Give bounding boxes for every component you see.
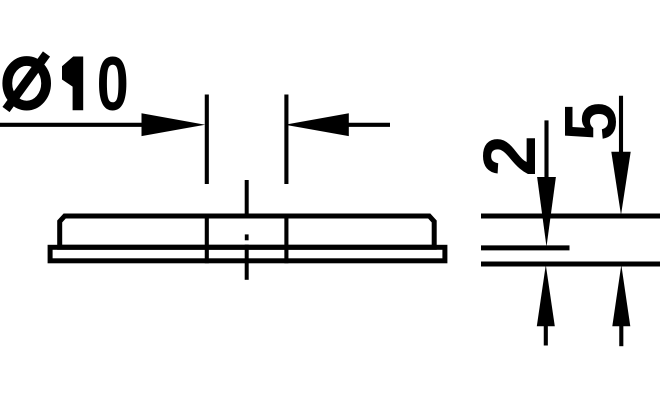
arrowhead left-pointing (Ø10 right) bbox=[285, 113, 349, 136]
pad body (disc side view) bbox=[60, 216, 435, 247]
svg-text:0: 0 bbox=[97, 42, 129, 126]
arrowhead down-pointing (dim 5) bbox=[611, 152, 630, 215]
svg-text:2: 2 bbox=[468, 135, 551, 176]
extension line left (Ø10) bbox=[205, 95, 209, 185]
extension line bottom (right side) bbox=[481, 262, 660, 267]
dimension line left segment (Ø10) bbox=[0, 123, 145, 127]
dimension line of 5 (upper tail) bbox=[619, 96, 623, 155]
arrowhead down-pointing (dim 2) bbox=[537, 177, 556, 247]
extension line top surface (right side) bbox=[481, 214, 660, 219]
dimension line of 5 (lower tail) bbox=[619, 326, 623, 346]
centerline dot bbox=[245, 234, 249, 240]
dimension label Ø symbol bbox=[6, 54, 47, 110]
arrowhead right-pointing (Ø10 left) bbox=[142, 113, 206, 136]
centerline dash lower bbox=[245, 245, 249, 280]
arrowhead up-pointing (dim 5) bbox=[612, 265, 630, 326]
pad edge line right (Ø10 feature) bbox=[284, 214, 288, 263]
dimension line of 2 (lower tail) bbox=[544, 326, 548, 346]
pad edge line left (Ø10 feature) bbox=[205, 214, 209, 263]
extension line strip top (right side, short) bbox=[481, 245, 570, 250]
dimension line right segment (Ø10) bbox=[348, 123, 390, 127]
adhesive liner strip (side view) bbox=[50, 247, 445, 260]
dimension line of 2 (upper tail) bbox=[544, 120, 548, 180]
extension line right (Ø10) bbox=[284, 95, 288, 185]
arrowhead up-pointing (dim 2) bbox=[537, 265, 555, 326]
dimension label digit 1 bbox=[62, 57, 83, 111]
centerline dash upper bbox=[245, 180, 249, 218]
